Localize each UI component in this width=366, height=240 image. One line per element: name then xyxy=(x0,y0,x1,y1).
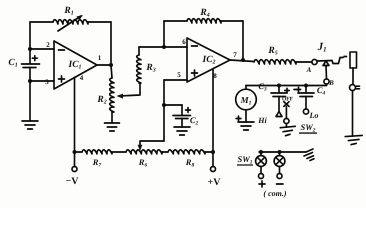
svg-text:4: 4 xyxy=(80,74,84,82)
svg-text:Lo: Lo xyxy=(309,111,319,120)
svg-text:5: 5 xyxy=(177,71,181,79)
svg-text:B: B xyxy=(328,79,334,87)
svg-text:A: A xyxy=(306,66,312,74)
svg-text:( com.): ( com.) xyxy=(263,189,286,198)
svg-text:2: 2 xyxy=(46,41,50,49)
svg-text:−V: −V xyxy=(66,176,80,187)
svg-text:Hi: Hi xyxy=(257,116,267,125)
svg-text:1: 1 xyxy=(98,54,102,62)
svg-text:8: 8 xyxy=(213,72,217,80)
svg-text:6: 6 xyxy=(182,38,186,46)
svg-text:OFF: OFF xyxy=(282,97,294,103)
svg-text:+V: +V xyxy=(208,177,222,188)
svg-text:7: 7 xyxy=(233,51,237,59)
svg-text:3: 3 xyxy=(45,78,49,86)
